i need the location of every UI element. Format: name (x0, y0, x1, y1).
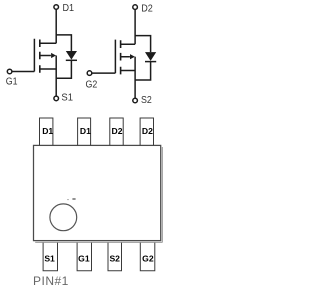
svg-text:D2: D2 (112, 126, 123, 136)
svg-text:S1: S1 (61, 91, 73, 103)
svg-text:D1: D1 (80, 126, 91, 136)
svg-text:G1: G1 (78, 254, 90, 264)
svg-text:D1: D1 (42, 126, 53, 136)
svg-text:S2: S2 (141, 94, 152, 106)
svg-text:G2: G2 (86, 78, 98, 90)
svg-text:G1: G1 (6, 76, 18, 88)
svg-text:D2: D2 (142, 126, 153, 136)
svg-text:PIN#1: PIN#1 (33, 274, 69, 288)
svg-text:D1: D1 (63, 2, 75, 14)
svg-text:D2: D2 (141, 3, 153, 15)
svg-text:G2: G2 (142, 254, 154, 264)
svg-text:S2: S2 (109, 254, 120, 264)
svg-text:S1: S1 (44, 254, 55, 264)
